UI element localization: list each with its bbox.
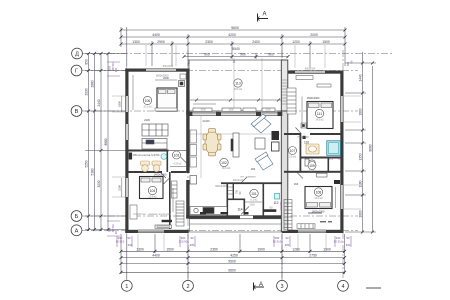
partition 105/103 bbox=[167, 150, 169, 172]
svg-text:9600: 9600 bbox=[228, 268, 236, 272]
svg-text:4: 4 bbox=[341, 284, 344, 290]
rug room 108 bbox=[308, 212, 322, 214]
bench room 108 bbox=[297, 224, 315, 229]
svg-text:102: 102 bbox=[221, 161, 227, 165]
svg-text:160: 160 bbox=[294, 182, 299, 186]
window left wall room 106 bbox=[125, 96, 128, 112]
svg-text:900: 900 bbox=[268, 53, 274, 57]
dresser room 111 bbox=[296, 76, 313, 80]
svg-text:112: 112 bbox=[273, 201, 278, 205]
svg-text:233: 233 bbox=[329, 156, 334, 160]
svg-text:4400: 4400 bbox=[152, 33, 160, 37]
top dimension lines bbox=[121, 27, 345, 68]
vanity below wall room 108 bbox=[317, 173, 328, 177]
svg-text:2x100: 2x100 bbox=[202, 119, 210, 123]
left dimension texts (rotated) bbox=[85, 59, 109, 187]
kitchen counter room 102 bbox=[190, 207, 227, 215]
right dimension lines bbox=[345, 52, 376, 232]
svg-text:2000: 2000 bbox=[163, 76, 169, 80]
section mark A top bbox=[258, 14, 269, 22]
svg-text:90: 90 bbox=[285, 236, 289, 240]
svg-text:1300: 1300 bbox=[249, 204, 255, 207]
partition 104 right bbox=[169, 172, 171, 229]
svg-text:2100: 2100 bbox=[118, 185, 122, 191]
closet shelves right of room 104 bbox=[172, 181, 178, 198]
svg-text:28,9 м2: 28,9 м2 bbox=[222, 167, 231, 170]
kitchen appliances along wall bbox=[200, 212, 206, 215]
svg-text:В: В bbox=[75, 109, 79, 115]
gray note texts bbox=[133, 65, 316, 216]
svg-text:4400: 4400 bbox=[152, 254, 160, 258]
svg-text:390: 390 bbox=[346, 243, 351, 247]
toilet room 109 bbox=[305, 159, 315, 166]
svg-text:103: 103 bbox=[174, 154, 180, 158]
shelf room 111 bbox=[317, 84, 331, 87]
right dimension ticks bbox=[361, 62, 374, 234]
bed room 111 bbox=[307, 102, 333, 129]
bathtub cyan bbox=[327, 141, 341, 156]
outer wall bottom (section 3-4) bbox=[282, 230, 344, 233]
interior small dims room 106 bbox=[133, 75, 177, 110]
svg-text:Б: Б bbox=[75, 214, 79, 220]
entry door opening bbox=[240, 215, 253, 219]
top dimension texts bbox=[132, 26, 330, 57]
tall kitchen cabinets along grid2 bbox=[190, 130, 197, 167]
svg-text:2750: 2750 bbox=[309, 254, 317, 258]
fireplace on grid3 wall bbox=[272, 131, 280, 140]
svg-text:1500: 1500 bbox=[228, 109, 234, 112]
svg-text:800x1500: 800x1500 bbox=[305, 67, 316, 70]
sink cabinet room 110 bbox=[306, 144, 319, 154]
svg-text:2880: 2880 bbox=[91, 80, 95, 87]
door leaf entry bbox=[241, 207, 249, 215]
svg-text:h=2700 пол - ламинат штукату: h=2700 пол - ламинат штукатурка bbox=[133, 213, 171, 216]
svg-text:104: 104 bbox=[150, 189, 156, 193]
window bottom wall room 108 bbox=[298, 230, 326, 233]
svg-text:5250: 5250 bbox=[85, 160, 89, 167]
grid bubble 2 bbox=[183, 280, 194, 291]
svg-text:1400x2000: 1400x2000 bbox=[154, 173, 167, 177]
svg-text:18,6 м2: 18,6 м2 bbox=[234, 88, 243, 91]
bed room 106 bbox=[157, 88, 177, 111]
bottom dimension ticks bbox=[120, 250, 347, 274]
room label 101 bbox=[250, 189, 258, 197]
svg-text:850: 850 bbox=[85, 59, 89, 65]
svg-text:2350: 2350 bbox=[210, 247, 218, 251]
svg-text:Д: Д bbox=[75, 52, 79, 58]
outer wall right bbox=[340, 71, 343, 234]
svg-text:1600x2000: 1600x2000 bbox=[307, 96, 320, 100]
svg-text:380: 380 bbox=[285, 243, 290, 247]
top dimension ticks bbox=[120, 29, 347, 59]
svg-text:9600: 9600 bbox=[231, 26, 239, 30]
svg-text:114: 114 bbox=[237, 208, 242, 212]
left dimension ticks bbox=[87, 52, 110, 231]
grid bubble 3 bbox=[277, 280, 288, 291]
svg-text:1900: 1900 bbox=[257, 247, 265, 251]
svg-text:1440: 1440 bbox=[359, 74, 363, 81]
svg-text:8880: 8880 bbox=[104, 138, 108, 145]
corner sofa room 102 bbox=[251, 114, 271, 133]
window wall on grid V (terrace/living) bbox=[188, 112, 282, 116]
svg-text:106: 106 bbox=[145, 99, 151, 103]
svg-text:4250: 4250 bbox=[230, 254, 238, 258]
grid bubble 4 bbox=[338, 280, 349, 291]
svg-text:1500: 1500 bbox=[166, 247, 174, 251]
grid bubble 1 bbox=[121, 280, 132, 291]
svg-text:2030: 2030 bbox=[85, 88, 89, 95]
grid bubble D bbox=[72, 48, 83, 59]
svg-text:380: 380 bbox=[190, 243, 195, 247]
grid bubble V bbox=[71, 106, 82, 117]
svg-text:А: А bbox=[75, 229, 79, 235]
svg-text:900x2100: 900x2100 bbox=[233, 179, 244, 182]
svg-text:5180: 5180 bbox=[91, 168, 95, 175]
svg-text:6,1 м2: 6,1 м2 bbox=[251, 199, 259, 202]
room label 113 bbox=[234, 79, 242, 87]
room label 102 bbox=[220, 158, 228, 166]
terrace inner dim line bbox=[190, 99, 281, 102]
svg-text:1160: 1160 bbox=[359, 180, 363, 187]
svg-text:109: 109 bbox=[309, 164, 315, 168]
room label 106 bbox=[143, 96, 151, 104]
svg-text:1500: 1500 bbox=[323, 247, 331, 251]
svg-text:113: 113 bbox=[235, 82, 241, 86]
svg-text:2440: 2440 bbox=[97, 99, 101, 106]
purple wall-dim cluster bottom-left corner bbox=[108, 223, 119, 234]
purple wall-dim cluster top-right corner bbox=[346, 60, 353, 66]
nightstand room 111 bbox=[301, 123, 306, 128]
grid bubble G bbox=[71, 65, 82, 76]
svg-text:90: 90 bbox=[127, 236, 131, 240]
shelf above window wall room 106 bbox=[155, 108, 177, 111]
threshold bar room 112 bbox=[263, 209, 277, 212]
section mark A bottom bbox=[254, 283, 265, 291]
svg-text:3230: 3230 bbox=[97, 180, 101, 187]
right dimension texts (rotated) bbox=[359, 74, 373, 217]
room label 103 bbox=[173, 151, 181, 159]
svg-text:1280: 1280 bbox=[292, 247, 300, 251]
dresser room 108 bbox=[334, 180, 340, 184]
coffee table room 102 bbox=[255, 138, 265, 149]
interior wall bath block bottom (y172) bbox=[129, 171, 163, 173]
svg-text:1300: 1300 bbox=[136, 247, 144, 251]
svg-text:1500: 1500 bbox=[200, 109, 206, 112]
svg-text:3,9 м2: 3,9 м2 bbox=[289, 156, 297, 159]
wardrobe room 106 bbox=[142, 124, 168, 136]
extra extension lines windows right bbox=[344, 96, 361, 209]
window bottom wall room 104 bbox=[138, 230, 164, 233]
bed room 108 bbox=[305, 187, 332, 209]
svg-text:390: 390 bbox=[346, 61, 350, 66]
grid axis dash-dot lines bbox=[82, 50, 392, 280]
svg-text:900: 900 bbox=[204, 53, 210, 57]
window left wall room 106 lower bbox=[125, 124, 128, 140]
room label 111 bbox=[315, 109, 323, 117]
svg-text:A: A bbox=[259, 282, 263, 288]
left dimension lines bbox=[85, 54, 126, 232]
bed room 104 bbox=[140, 177, 164, 199]
grid bubble B bbox=[71, 211, 82, 222]
window sill benches above grid V wall bbox=[193, 108, 275, 111]
svg-text:3: 3 bbox=[280, 284, 283, 290]
svg-text:2430: 2430 bbox=[144, 118, 150, 122]
extra extension lines windows left bbox=[112, 96, 125, 197]
partition 107/110 bbox=[300, 134, 302, 172]
svg-text:800x1500: 800x1500 bbox=[163, 65, 174, 68]
svg-text:90: 90 bbox=[346, 236, 350, 240]
entry hall walls (101/114/112) bbox=[221, 182, 282, 184]
outer wall top (section 3-4) bbox=[282, 71, 344, 74]
outer wall bottom (section 1-2) bbox=[125, 230, 189, 233]
svg-text:2300: 2300 bbox=[205, 40, 213, 44]
shelf box room 106 top right bbox=[180, 74, 186, 79]
extra extension lines windows top bbox=[146, 45, 325, 68]
svg-text:2900: 2900 bbox=[157, 40, 165, 44]
door leaves extra bbox=[164, 157, 304, 184]
bench room 104 bbox=[155, 225, 172, 228]
tv stand room 102 bbox=[231, 133, 239, 157]
svg-text:900: 900 bbox=[240, 53, 246, 57]
door leaf bath 105 bbox=[160, 172, 166, 178]
right section wall y134 bbox=[284, 133, 301, 135]
vent shaft on left wall bbox=[129, 153, 132, 160]
svg-text:108: 108 bbox=[316, 191, 322, 195]
window top wall room 106 bbox=[146, 69, 176, 72]
svg-text:14,8 м2: 14,8 м2 bbox=[315, 119, 324, 122]
door leaf room 110 bbox=[296, 128, 302, 134]
interior small dim texts bbox=[144, 76, 325, 214]
toilet 1 room 105 bbox=[141, 161, 150, 172]
stairs right of grid3 bbox=[284, 200, 292, 231]
svg-text:900x2100: 900x2100 bbox=[215, 184, 227, 188]
svg-text:2,1 м2: 2,1 м2 bbox=[309, 170, 317, 173]
svg-text:110: 110 bbox=[304, 141, 309, 145]
boiler room 112 cyan bbox=[275, 194, 280, 200]
svg-text:1200: 1200 bbox=[292, 40, 300, 44]
svg-text:5540: 5540 bbox=[232, 47, 240, 51]
interior thin lines living room bbox=[200, 116, 202, 178]
terrace 113 outline bbox=[189, 60, 282, 111]
room label 104 bbox=[148, 186, 156, 194]
svg-text:13,2 м2: 13,2 м2 bbox=[314, 197, 323, 200]
svg-text:1200: 1200 bbox=[265, 109, 271, 112]
door mat room 104 bbox=[162, 220, 172, 222]
svg-text:1: 1 bbox=[125, 284, 128, 290]
outer wall top (section 1-2) bbox=[125, 69, 189, 72]
svg-text:4,25 м2: 4,25 м2 bbox=[173, 163, 182, 166]
svg-text:1800: 1800 bbox=[359, 210, 363, 217]
svg-text:101: 101 bbox=[251, 192, 257, 196]
stairs near grid2 bbox=[176, 201, 184, 226]
bottom dimension lines bbox=[121, 234, 345, 280]
svg-text:12,4 м2: 12,4 м2 bbox=[148, 196, 157, 199]
svg-text:8080: 8080 bbox=[369, 144, 373, 151]
extra interior dim marks bbox=[122, 96, 336, 212]
svg-text:90 380: 90 380 bbox=[279, 201, 283, 209]
svg-text:2000: 2000 bbox=[310, 33, 318, 37]
svg-text:4200: 4200 bbox=[228, 33, 236, 37]
spine wall grid3 bbox=[281, 60, 288, 111]
room label 107 bbox=[289, 147, 297, 155]
svg-text:15,2 м2: 15,2 м2 bbox=[143, 106, 152, 109]
svg-text:105 пол-плитка h=2700: 105 пол-плитка h=2700 bbox=[133, 154, 160, 157]
purple stacked dim clusters above bottom dims bbox=[116, 236, 351, 247]
room label 109 bbox=[308, 162, 316, 170]
purple wall-dim cluster top-left corner bbox=[108, 61, 119, 72]
svg-text:9500: 9500 bbox=[228, 260, 236, 264]
terrace extension lines bbox=[234, 58, 262, 111]
svg-text:1800: 1800 bbox=[118, 101, 122, 107]
room area texts bbox=[143, 88, 324, 202]
desk room 106 bbox=[142, 139, 167, 150]
terrace edge ticks bbox=[189, 60, 282, 64]
svg-text:1500: 1500 bbox=[322, 40, 330, 44]
wardrobe room 111 bbox=[287, 88, 296, 114]
bottom wall middle recessed (grid B) bbox=[186, 215, 284, 218]
svg-text:700x2100: 700x2100 bbox=[297, 135, 309, 139]
short reference dash bottom right bbox=[366, 287, 381, 289]
window right wall room 108 bbox=[340, 185, 343, 209]
svg-text:1350: 1350 bbox=[359, 153, 363, 160]
grid bubble A bbox=[71, 225, 82, 236]
bottom dimension texts bbox=[136, 247, 331, 272]
right section wall y172 bbox=[284, 171, 341, 173]
svg-text:1600x2000: 1600x2000 bbox=[312, 210, 325, 214]
door leaf 101 to 102 bbox=[241, 177, 247, 183]
window right wall room 111 bbox=[340, 96, 343, 122]
dining table room 102 bbox=[203, 129, 221, 156]
svg-text:1300: 1300 bbox=[132, 40, 140, 44]
svg-text:90: 90 bbox=[190, 236, 194, 240]
extra extension lines windows bottom bbox=[138, 234, 326, 251]
nightstand with lamp room 106 bbox=[179, 81, 185, 87]
armchair room 102 bbox=[255, 152, 273, 170]
svg-text:пол - ламинат: пол - ламинат bbox=[240, 176, 256, 179]
right section wall y157.5 bbox=[300, 157, 341, 159]
svg-text:Г: Г bbox=[75, 69, 78, 75]
toilet 2 room 105 bbox=[152, 161, 161, 172]
svg-text:A: A bbox=[262, 12, 266, 18]
rug marks room 108 bbox=[320, 221, 332, 223]
svg-text:1800: 1800 bbox=[359, 108, 363, 115]
room label 108 bbox=[314, 188, 322, 196]
fridge room 102 bbox=[190, 176, 197, 185]
svg-text:300: 300 bbox=[251, 167, 256, 171]
partition 109 right bbox=[328, 158, 330, 172]
wall x188 room106 right / grid2 spine bbox=[186, 69, 189, 115]
svg-text:111: 111 bbox=[317, 112, 322, 116]
washer room 105 bbox=[161, 154, 167, 160]
outer wall left bbox=[125, 69, 128, 234]
svg-text:2: 2 bbox=[186, 284, 189, 290]
svg-text:390: 390 bbox=[114, 67, 118, 72]
window top wall room 111 bbox=[295, 71, 325, 74]
svg-text:107: 107 bbox=[290, 149, 296, 153]
dresser room 104 bbox=[130, 205, 137, 219]
interior wall bath block top (y150.5) bbox=[129, 150, 169, 152]
entry porch slab bbox=[190, 219, 282, 232]
svg-text:390: 390 bbox=[114, 229, 118, 234]
svg-text:2400: 2400 bbox=[252, 40, 260, 44]
window left wall room 104 bbox=[125, 178, 128, 197]
